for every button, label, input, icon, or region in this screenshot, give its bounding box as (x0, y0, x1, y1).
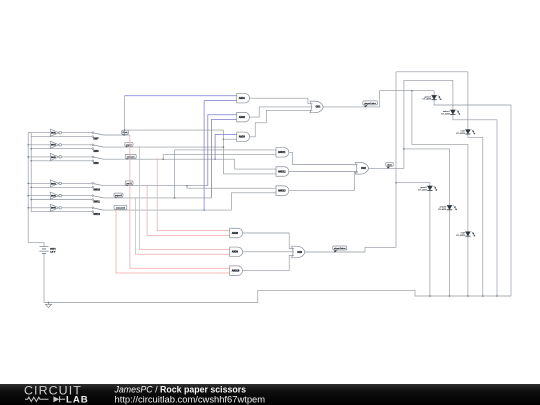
wire ground bus (44, 290, 511, 302)
wire second bus vertical (30, 133, 32, 212)
wire bus to INV5 input (28, 195, 50, 197)
AND gate AND1 (237, 93, 250, 103)
junction bus1 row 5 (27, 195, 29, 197)
junction scissors/AND11 riser (162, 158, 164, 160)
junction ground on bus (48, 302, 50, 304)
svg-text:AND1: AND1 (239, 97, 246, 100)
wire draw net branch to LED5 anode (404, 149, 450, 205)
wire bus to INV1 input (28, 132, 50, 134)
wire INV2 output to switch SW8 top throw (62, 144, 93, 146)
node flag scissors2 (F6) (114, 205, 127, 210)
wire bus top jumper (28, 132, 31, 134)
junction LED drain on ground bus (467, 295, 469, 297)
junction player1wins branch (411, 90, 413, 92)
junction bus1 row 3 (27, 156, 29, 158)
LED LED6 (red2) (456, 232, 475, 238)
node flag paper2 (F5) (114, 193, 123, 198)
LED LED2 (amber1) (441, 110, 460, 116)
wire scissors net staircase to AND12 input A (235, 159, 276, 169)
OR gate OR3 (292, 246, 305, 258)
wire LED6 cathode down (467, 237, 469, 297)
junction rock2/AND13 riser (186, 185, 188, 187)
wire LED5 cathode down (449, 210, 451, 296)
svg-text:LTL-4223: LTL-4223 (438, 209, 447, 211)
junction bus2 row 3 (30, 160, 32, 162)
wire bus to switch SW8 bottom throw (31, 148, 92, 150)
wire scissors2 net red riser to AND10 input B (116, 210, 230, 273)
junction paper2/red riser (135, 197, 137, 199)
svg-text:http://circuitlab.com/cwshhf67: http://circuitlab.com/cwshhf67wtpem (115, 393, 266, 404)
svg-text:AND10: AND10 (232, 269, 240, 272)
wire switch SW12 common to scissors2 net (104, 209, 232, 211)
wire LED2 cathode to ground bus (453, 115, 497, 296)
svg-text:scissors: scissors (127, 155, 136, 158)
SPDT switch SW7 (92, 132, 104, 141)
svg-text:SW12: SW12 (93, 213, 100, 216)
node flag Rock (F1) (122, 130, 129, 135)
node flag rock2 (F4) (125, 181, 133, 186)
svg-text:AND3: AND3 (239, 136, 246, 139)
LED LED1 (green1) (422, 95, 441, 101)
wire OR3 output to player2wins net riser (304, 72, 396, 252)
AND gate AND3 (237, 132, 250, 142)
wire AND9 output to OR3 input 2 (243, 251, 294, 253)
wire switch SW7 common to Rock net (104, 134, 130, 136)
wire Rock net red riser to AND10 input A (130, 135, 230, 268)
svg-text:SW8: SW8 (93, 150, 99, 153)
wire LED1 cathode to ground bus (434, 100, 511, 296)
junction bus1 row 6 (27, 207, 29, 209)
junction LED drain on ground bus (482, 295, 484, 297)
svg-text:AND12: AND12 (278, 170, 286, 173)
AND gate AND10 (230, 266, 243, 276)
wire rock2 net riser to AND13 input A (187, 186, 276, 189)
wire Rock net branch run to AND3 input B (125, 130, 237, 139)
wire AND13 output to OR2 input 3 (289, 172, 358, 190)
wire AND11 output to OR2 input 1 (289, 152, 358, 164)
AND gate AND13 (276, 186, 289, 196)
wire paper2 net blue riser to AND2 input B (212, 120, 237, 198)
wire AND8 output to OR3 input 1 (243, 233, 294, 249)
inverter INV2 (50, 141, 61, 148)
svg-text:SW10: SW10 (93, 188, 100, 191)
wire player1wins to LED6 anode branch (412, 91, 468, 232)
svg-text:draw: draw (387, 163, 392, 166)
junction paper ext on riser (223, 146, 225, 148)
junction paper/red riser (139, 146, 141, 148)
wire bus to switch SW9 bottom throw (31, 160, 92, 162)
SPDT switch SW12 (92, 207, 104, 216)
wire rock2 net red riser to AND8 input B (147, 186, 230, 236)
junction scissors2/blue riser (203, 209, 205, 211)
wire switch SW11 common to paper2 net (104, 197, 212, 199)
inverter INV5 (50, 192, 61, 199)
LED LED4 (green2) (418, 186, 437, 192)
wire player2wins top rail to LED3 anode (396, 72, 468, 130)
svg-text:paper: paper (126, 143, 132, 146)
wire AND12 output to OR2 input 2 (289, 171, 358, 173)
junction rock2/red riser (146, 185, 148, 187)
node flag player1wins (F7) (363, 101, 378, 107)
svg-text:player1wins: player1wins (364, 102, 376, 105)
SPDT switch SW11 (92, 195, 104, 204)
wire Rock net blue run to AND1 input A (125, 95, 237, 97)
junction draw/LED5 branch (403, 148, 405, 150)
wire draw net top rail to LED2 anode (404, 80, 453, 110)
svg-text:scissors2: scissors2 (116, 206, 126, 209)
wire AND10 output to OR3 input 3 (243, 256, 294, 271)
svg-text:LAB: LAB (66, 395, 89, 405)
svg-text:LTL-4223: LTL-4223 (422, 99, 431, 101)
SPDT switch SW10 (92, 183, 104, 192)
wire bus to switch SW11 bottom throw (31, 199, 92, 201)
junction bus1 row 4 (27, 183, 29, 185)
svg-text:OR2: OR2 (361, 168, 366, 170)
wire bus to INV4 input (28, 182, 50, 184)
node flag player2wins (F9) (333, 246, 347, 252)
wire scissors2 net staircase to AND13 input B (231, 193, 276, 210)
LED LED3 (red1) (456, 130, 475, 136)
CircuitLab logo resistor and diode glyph (25, 396, 65, 402)
junction Rock branch on riser (124, 129, 126, 131)
node flag scissors (F3) (125, 154, 136, 159)
junction paper2/AND11 riser (174, 197, 176, 199)
junction LED drain on ground bus (496, 295, 498, 297)
svg-text:SW9: SW9 (93, 162, 99, 165)
svg-text:LTL-4223: LTL-4223 (456, 235, 465, 237)
wire LED4 cathode down (429, 191, 431, 296)
svg-text:LTL-4223: LTL-4223 (456, 133, 465, 135)
svg-text:AND8: AND8 (232, 232, 239, 235)
svg-text:SW7: SW7 (93, 138, 99, 141)
wire Rock net gray riser (124, 96, 126, 135)
wire bus to INV3 input (28, 156, 50, 158)
junction bus2 row 4 (30, 186, 32, 188)
svg-text:AND9: AND9 (232, 251, 239, 254)
wire AND3 output to OR1 input 3 (250, 110, 313, 136)
wire scissors2 net blue riser to AND1 input B (204, 101, 237, 211)
wire player2wins branch to LED4 anode (396, 183, 430, 186)
AND gate AND12 (276, 167, 289, 177)
svg-text:BAT1: BAT1 (50, 248, 56, 251)
wire scissors net riser to AND11 input B (163, 155, 276, 160)
inverter INV1 (50, 129, 61, 136)
junction scissors2/red riser (115, 209, 117, 211)
AND gate AND11 (276, 148, 289, 158)
junction bus2 row 2 (30, 148, 32, 150)
OR gate OR1 (310, 101, 323, 113)
junction LED drain on ground bus (429, 295, 431, 297)
wire INV1 output to switch SW7 top throw (62, 132, 93, 134)
svg-text:rock2: rock2 (126, 182, 132, 185)
LED LED5 (amber2) (438, 205, 457, 211)
wire paper2 net red riser to AND9 input B (135, 198, 229, 254)
wire INV6 output to switch SW12 top throw (62, 207, 93, 209)
wire input bus vertical (battery + rail) (27, 133, 29, 243)
svg-text:OR1: OR1 (316, 107, 321, 109)
junction Rock branch corner (223, 138, 225, 140)
wire battery negative to ground bus (43, 254, 45, 303)
wire paper net red riser to AND9 input A (140, 147, 230, 249)
node flag paper (F2) (125, 142, 133, 147)
wire bus to switch SW7 bottom throw (31, 136, 92, 138)
AND gate AND9 (230, 247, 243, 256)
wire switch SW8 common to paper net (104, 146, 224, 148)
AND gate AND8 (230, 228, 243, 238)
AND gate AND2 (237, 112, 250, 122)
svg-text:AND11: AND11 (278, 151, 286, 154)
inverter INV6 (50, 204, 61, 211)
inverter INV3 (50, 153, 61, 160)
wire bus to INV6 input (28, 207, 50, 209)
svg-text:SW11: SW11 (93, 201, 100, 204)
junction Rock riser (124, 134, 126, 136)
svg-text:AND13: AND13 (278, 189, 286, 192)
svg-text:LTL-4223: LTL-4223 (418, 189, 427, 191)
inverter INV4 (50, 180, 61, 187)
svg-text:1.5 V: 1.5 V (50, 252, 56, 254)
svg-text:player2wins: player2wins (334, 247, 346, 250)
wire bus to INV2 input (28, 144, 50, 146)
wire INV3 output to switch SW9 top throw (62, 156, 93, 158)
wire switch SW9 common to scissors net (104, 158, 235, 160)
wire bus to battery positive (28, 243, 44, 247)
wire switch SW10 common to rock2 net (104, 185, 208, 187)
svg-text:OR3: OR3 (297, 252, 302, 254)
junction bus2 row 5 (30, 199, 32, 201)
battery BAT1 1.5 V (39, 247, 56, 254)
svg-text:paper2: paper2 (115, 194, 123, 197)
wire scissors net blue riser to AND3 input A (215, 134, 237, 159)
SPDT switch SW8 (92, 144, 104, 153)
wire AND1 output to OR1 input 1 (250, 98, 313, 103)
wire AND2 output to OR1 input 2 (250, 107, 313, 117)
wire rock2 net blue riser to AND2 input A (208, 115, 237, 186)
SPDT switch SW9 (92, 156, 104, 165)
svg-text:AND2: AND2 (239, 116, 246, 119)
junction scissors/red riser (156, 158, 158, 160)
wire bus to switch SW12 bottom throw (31, 211, 92, 213)
junction bus1 row 2 (27, 144, 29, 146)
wire scissors net red riser to AND8 input A (157, 159, 230, 230)
junction scissors/blue riser (214, 158, 216, 160)
junction LED drain on ground bus (449, 295, 451, 297)
wire paper2 net riser to AND11 input A (175, 150, 277, 198)
wire OR1 output to player1wins net (323, 91, 435, 107)
svg-text:LTL-4223: LTL-4223 (441, 113, 450, 115)
wire LED3 cathode to ground bus (468, 135, 483, 297)
wire bus to switch SW10 bottom throw (31, 186, 92, 188)
wire OR2 output to draw net riser (368, 80, 404, 168)
node flag draw (F8) (386, 162, 393, 168)
ground symbol (45, 303, 51, 308)
junction player2wins/LED4 branch (395, 182, 397, 184)
wire riser down to AND12 input B (223, 139, 276, 174)
OR gate OR2 (355, 163, 368, 175)
wire INV4 output to switch SW10 top throw (62, 182, 93, 184)
wire INV5 output to switch SW11 top throw (62, 195, 93, 197)
